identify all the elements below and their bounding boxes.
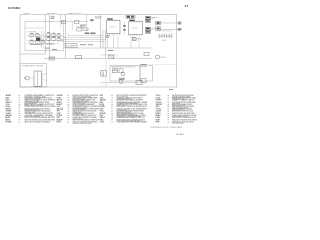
wire main bus	[66, 47, 152, 49]
capacitor C503	[141, 79, 146, 83]
node label POWER SUPPLY CIRCUIT	[22, 66, 43, 68]
AC plug P1	[24, 76, 34, 80]
svg-text:4-10: 4-10	[176, 134, 184, 136]
capacitor C109	[57, 33, 61, 38]
wire	[60, 33, 68, 41]
svg-text:EQ AMP: EQ AMP	[66, 45, 76, 48]
svg-text:PLAYBACK FREQUENCY HEAD: PLAYBACK FREQUENCY HEAD	[73, 122, 93, 125]
resistor R305	[156, 21, 161, 24]
svg-text:CHG: CHG	[100, 122, 105, 124]
svg-text:PB: PB	[156, 122, 161, 124]
crystal X1	[132, 37, 142, 40]
wire head section	[25, 27, 44, 29]
transistor Q301	[145, 16, 155, 19]
footnote line	[150, 126, 183, 129]
power supply section box	[20, 64, 47, 87]
control section box	[110, 65, 140, 81]
capacitor C401	[144, 52, 149, 55]
transistor Q102	[35, 33, 39, 38]
svg-text:MAIN AMP AND POWER SWITCH: MAIN AMP AND POWER SWITCH	[112, 65, 136, 68]
node label B+	[91, 33, 96, 35]
wire	[61, 15, 87, 31]
svg-text:TUNER CIRCUIT: TUNER CIRCUIT	[67, 13, 82, 15]
wire	[105, 58, 107, 87]
capacitor C210	[123, 22, 125, 35]
transistor Q103	[47, 32, 51, 37]
node label CASS T	[23, 12, 32, 15]
speaker output wire L	[160, 22, 182, 24]
enclosure outline	[20, 15, 177, 88]
page header title	[8, 8, 21, 10]
svg-text:CASS T: CASS T	[23, 12, 31, 15]
wire tuner bus	[61, 20, 88, 22]
connector CN201	[126, 15, 135, 18]
capacitor C106	[52, 37, 56, 42]
node label MAIN AMP SECTION	[112, 65, 136, 68]
svg-text:Q301: Q301	[151, 18, 155, 20]
document code	[176, 134, 184, 136]
aux section box	[140, 65, 153, 81]
node label W	[169, 89, 173, 90]
wire	[27, 35, 64, 37]
svg-text:Q303: Q303	[151, 29, 155, 31]
IC U101	[107, 18, 121, 34]
node label VCC	[105, 35, 110, 37]
wire power rail	[44, 57, 152, 59]
node label PHONO	[141, 66, 148, 68]
svg-text:FM: FM	[6, 122, 13, 124]
node label REC/PLAY	[28, 30, 37, 33]
node label SPEAKER LINE	[140, 64, 176, 65]
svg-text:IC101: IC101	[110, 27, 116, 29]
wire bottom bus	[101, 82, 141, 84]
speaker SP1	[101, 71, 107, 77]
transistor Q303	[145, 27, 155, 30]
section divider wire	[100, 15, 102, 49]
node label LINE INPUT	[46, 12, 58, 15]
ground	[162, 40, 166, 42]
node label AC	[108, 50, 114, 51]
amplifier block A1	[65, 44, 77, 48]
wire	[151, 18, 173, 31]
wire	[27, 42, 60, 44]
svg-text:8-910 SERIES: 8-910 SERIES	[8, 8, 21, 10]
svg-text:FM: FM	[57, 122, 62, 124]
node label B1	[85, 33, 90, 34]
inner cassette box	[25, 22, 64, 51]
node label REC	[46, 48, 58, 50]
svg-text:LINE INPUT: LINE INPUT	[46, 13, 57, 15]
node label TUNER CIRCUIT	[67, 12, 83, 15]
resistor R501	[113, 69, 118, 73]
IC U201	[129, 20, 143, 36]
svg-text:POWER SUPPLY CIRCUIT: POWER SUPPLY CIRCUIT	[22, 66, 43, 68]
coil L201	[62, 21, 66, 24]
transistor Q101	[30, 33, 34, 38]
resistor R110	[57, 37, 61, 42]
wire	[27, 40, 64, 42]
svg-text:REC PLAY HEAD: REC PLAY HEAD	[28, 30, 37, 33]
switch S1	[49, 57, 55, 60]
section divider wire	[65, 15, 67, 58]
capacitor C502	[119, 69, 123, 73]
section divider wire	[48, 15, 50, 58]
resistor R107	[30, 40, 34, 45]
connector CN301 pins	[159, 34, 173, 38]
svg-text:PHONO: PHONO	[141, 66, 148, 68]
svg-text:GND: GND	[162, 40, 166, 42]
svg-text:VOLUME MOTOR TRANS HEAD: VOLUME MOTOR TRANS HEAD	[117, 121, 148, 124]
capacitor C105	[47, 37, 51, 42]
section divider wire	[44, 15, 46, 55]
resistor R201	[77, 26, 82, 31]
fuse F1	[76, 56, 82, 59]
junction dots	[30, 44, 54, 45]
page number	[184, 4, 189, 8]
resistor R108	[35, 40, 39, 45]
node label IF	[80, 25, 86, 28]
node label PB	[80, 44, 93, 45]
node label OSC	[90, 19, 93, 21]
transistor Q302	[145, 20, 150, 23]
resistor R306	[156, 27, 161, 30]
speaker output wire R	[160, 28, 182, 30]
potentiometer VR1	[119, 72, 125, 79]
wire	[44, 74, 48, 80]
capacitor C504	[136, 81, 142, 85]
svg-text:TERM: TERM	[95, 18, 101, 20]
svg-text:AM ANT: AM ANT	[95, 15, 102, 18]
pilot lamp PL1	[119, 79, 125, 83]
wire	[102, 30, 104, 48]
transformer T101	[36, 38, 40, 41]
node label AMP	[95, 15, 102, 20]
node label AUX	[51, 16, 55, 19]
cassette section bottom wire	[20, 53, 45, 55]
wire	[42, 31, 44, 48]
wire	[101, 54, 119, 56]
svg-text:IC201: IC201	[132, 28, 138, 30]
wire harness	[60, 36, 106, 42]
svg-text:CONTINUED ON FOLLOWING PAGE: CONTINUED ON FOLLOWING PAGE	[150, 126, 183, 129]
svg-text:MOTOR: MOTOR	[160, 57, 166, 59]
transistor Q104	[52, 33, 56, 38]
wire	[108, 35, 140, 48]
capacitor C202	[83, 28, 88, 31]
svg-text:REGULATOR PLAYBACK PLAYBACK: REGULATOR PLAYBACK PLAYBACK	[25, 121, 51, 124]
svg-text:17: 17	[184, 4, 189, 8]
svg-text:RY201: RY201	[137, 39, 142, 41]
coil L202	[75, 21, 80, 24]
motor M1	[156, 55, 166, 59]
parts legend table	[6, 94, 198, 125]
transistor Q304	[145, 31, 150, 34]
capacitor C111	[41, 40, 45, 45]
relay RY1	[109, 55, 114, 58]
wire	[105, 30, 107, 58]
svg-text:OUTPUT LAMP MOTOR DIAL: OUTPUT LAMP MOTOR DIAL	[172, 122, 184, 125]
transformer T1	[34, 71, 42, 86]
svg-text:R201: R201	[77, 26, 81, 28]
